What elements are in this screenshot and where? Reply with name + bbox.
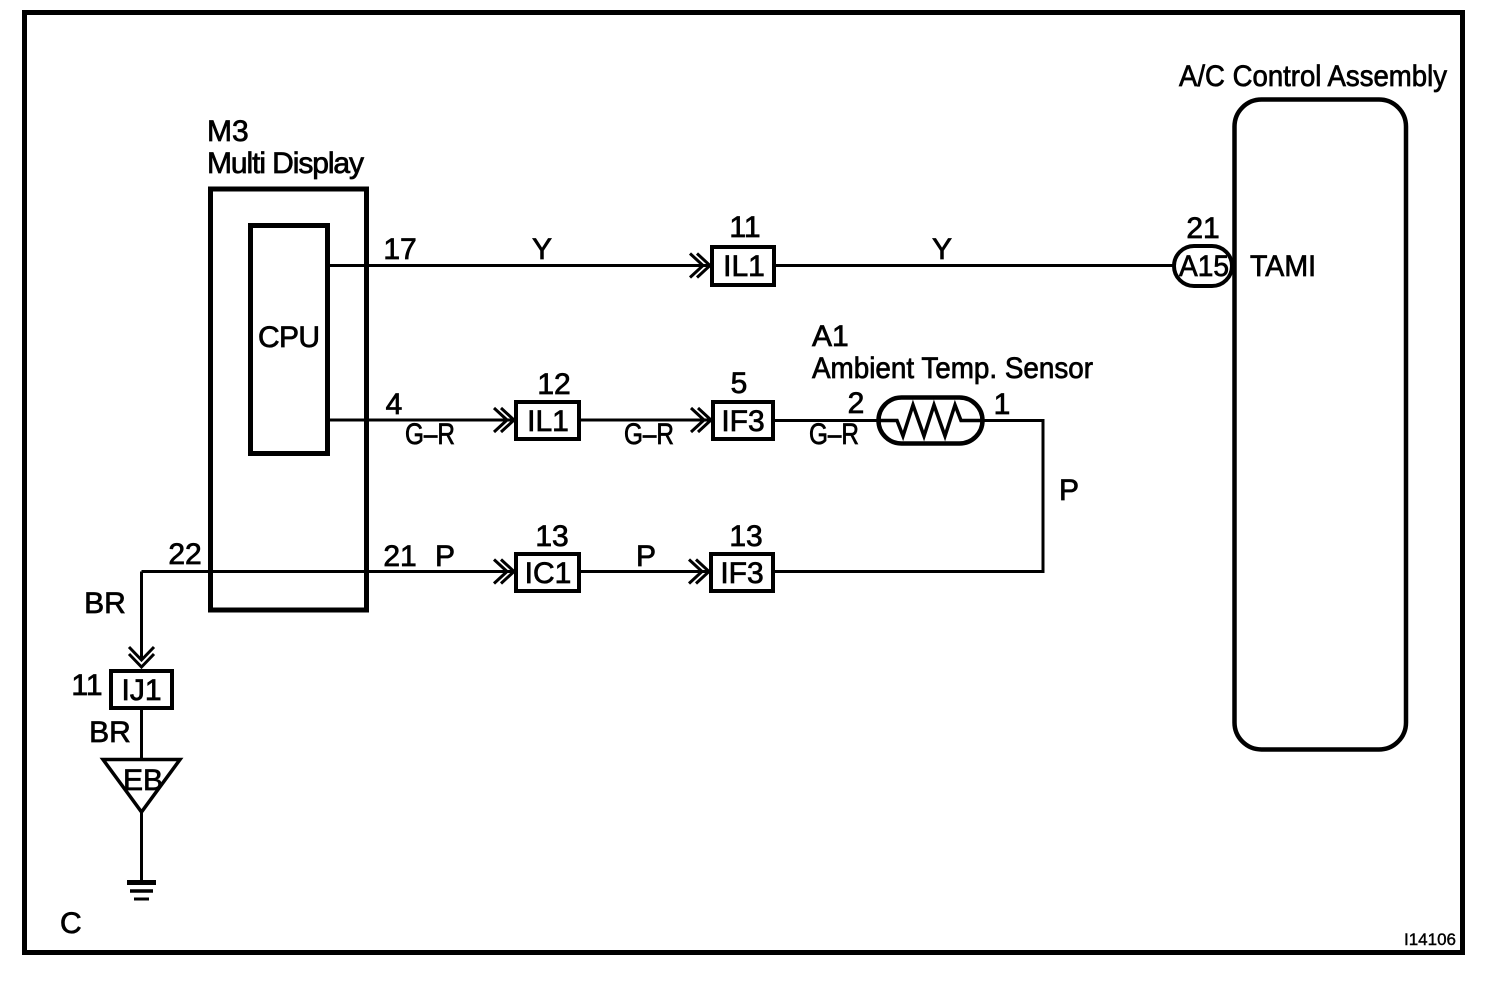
svg-text:11: 11 [71, 669, 102, 702]
svg-text:IC1: IC1 [525, 557, 572, 590]
svg-text:21: 21 [1186, 212, 1219, 245]
svg-text:G–R: G–R [809, 418, 859, 451]
arrow into IJ1 [129, 647, 154, 667]
svg-text:IF3: IF3 [720, 557, 763, 590]
svg-text:EB: EB [123, 764, 163, 797]
svg-text:Y: Y [932, 233, 952, 266]
connector A15 [1174, 246, 1232, 286]
svg-text:I14106: I14106 [1404, 931, 1456, 949]
arrow into IF3 row2 [691, 408, 711, 432]
svg-text:IF3: IF3 [721, 405, 764, 438]
junction connector IJ1 pin 11 [111, 671, 172, 708]
svg-text:13: 13 [729, 520, 762, 553]
svg-text:P: P [1059, 474, 1079, 507]
svg-text:1: 1 [994, 388, 1011, 421]
svg-text:A1: A1 [812, 320, 849, 353]
svg-text:12: 12 [537, 368, 570, 401]
CPU block [251, 226, 328, 454]
svg-text:11: 11 [729, 211, 760, 244]
svg-text:Y: Y [532, 233, 552, 266]
wire M3 pin22 down to IJ1 (BR) [140, 572, 143, 661]
svg-text:G–R: G–R [405, 418, 455, 451]
ground symbol [127, 883, 156, 900]
svg-text:4: 4 [386, 388, 403, 421]
wire IC1 to IF3 (P) [579, 570, 711, 573]
svg-text:CPU: CPU [258, 321, 320, 354]
arrow into IC1 [494, 560, 514, 584]
svg-text:22: 22 [168, 538, 201, 571]
svg-text:P: P [435, 540, 455, 573]
connector IL1 pin 11 [712, 247, 774, 285]
connector IC1 pin 13 [516, 554, 579, 591]
svg-text:5: 5 [731, 367, 748, 400]
svg-text:G–R: G–R [624, 418, 674, 451]
svg-text:2: 2 [848, 387, 865, 420]
svg-text:Multi Display: Multi Display [207, 147, 364, 180]
arrow into IL1 row2 [494, 408, 514, 432]
ground point EB [103, 760, 180, 813]
sensor A1 Ambient Temp. Sensor (thermistor) [879, 398, 983, 444]
svg-text:A/C Control Assembly: A/C Control Assembly [1179, 60, 1447, 93]
connector IL1 pin 12 [516, 402, 579, 439]
resistor zigzag [880, 405, 983, 436]
arrow into IL1 [690, 254, 710, 278]
wire M3 pin4 to IL1 (G-R) [326, 419, 516, 422]
svg-text:IL1: IL1 [527, 405, 569, 438]
connector IF3 pin 13 [711, 554, 773, 591]
svg-text:Ambient Temp. Sensor: Ambient Temp. Sensor [812, 352, 1093, 385]
svg-text:BR: BR [84, 587, 126, 620]
svg-text:P: P [636, 540, 656, 573]
block M3 Multi Display [211, 189, 367, 610]
wire IL1 to A15 (Y) [774, 264, 1174, 267]
svg-text:13: 13 [535, 520, 568, 553]
connector IF3 pin 5 [713, 402, 773, 439]
wire M3 pin17 to connector IL1 (Y) [326, 264, 712, 267]
wire sensor pin1 down to IF3 (P) [773, 421, 1043, 572]
svg-text:BR: BR [89, 716, 131, 749]
svg-text:M3: M3 [207, 115, 249, 148]
wire IJ1 to EB (BR) [140, 708, 143, 759]
arrow into IF3 row3 [689, 560, 709, 584]
svg-text:A15: A15 [1179, 250, 1229, 283]
wire IL1 to IF3 (G-R) [579, 419, 713, 422]
svg-text:17: 17 [383, 233, 416, 266]
svg-text:TAMI: TAMI [1250, 250, 1316, 283]
svg-text:IL1: IL1 [723, 250, 765, 283]
wire EB to ground [140, 812, 143, 882]
svg-text:C: C [60, 907, 82, 940]
wire IF3 to sensor (G-R) [773, 419, 880, 422]
svg-text:IJ1: IJ1 [121, 674, 161, 707]
svg-text:21: 21 [383, 540, 416, 573]
wire M3 pin22 pin21 row to IC1 [142, 570, 517, 573]
A/C Control Assembly block [1235, 100, 1407, 750]
